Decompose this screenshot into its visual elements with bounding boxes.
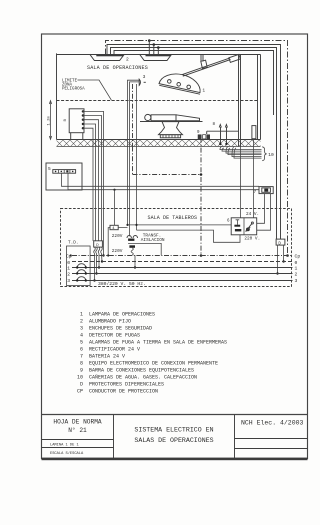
svg-text:380/220 V. 50 Hz.: 380/220 V. 50 Hz. bbox=[98, 281, 146, 287]
dash-dot branch bbox=[133, 174, 202, 176]
svg-text:D: D bbox=[80, 382, 83, 388]
thick bottom bar bbox=[42, 458, 308, 461]
svg-text:NCH Elec. 4/2003: NCH Elec. 4/2003 bbox=[241, 419, 304, 426]
svg-text:ALUMBRADO FIJO: ALUMBRADO FIJO bbox=[89, 319, 131, 325]
svg-text:5: 5 bbox=[80, 340, 83, 346]
supply drop for equipment bbox=[238, 55, 240, 147]
drops to buses bbox=[94, 254, 96, 281]
lamp dome bbox=[159, 74, 200, 93]
arm to counterweight (double line) bbox=[182, 58, 230, 75]
svg-text:DETECTOR DE FUGAS: DETECTOR DE FUGAS bbox=[89, 333, 140, 339]
svg-text:3: 3 bbox=[67, 278, 70, 284]
bracket and label 10 bbox=[262, 147, 266, 161]
detector de fugas 4 bbox=[110, 225, 118, 229]
svg-text:7: 7 bbox=[254, 190, 257, 195]
bus Cp dashed bbox=[72, 255, 293, 257]
svg-text:2: 2 bbox=[126, 56, 129, 62]
wall left bbox=[56, 53, 58, 139]
svg-text:1: 1 bbox=[80, 312, 83, 318]
dash-dot riser from bar 9 to Cp bus bbox=[200, 138, 202, 256]
ceiling luminaire B bbox=[140, 54, 172, 60]
svg-text:5: 5 bbox=[48, 166, 51, 172]
svg-text:1: 1 bbox=[67, 265, 70, 271]
ceiling luminaire A (alumbrado fijo) bbox=[90, 54, 125, 60]
svg-text:LAMINA 1 DE 1: LAMINA 1 DE 1 bbox=[50, 443, 80, 447]
socket terminal dots bbox=[82, 110, 84, 112]
floor line bbox=[57, 139, 261, 141]
svg-text:7: 7 bbox=[80, 354, 83, 360]
svg-text:EQUIPO ELECTROMEDICO DE CONEXI: EQUIPO ELECTROMEDICO DE CONEXION PERMANE… bbox=[89, 361, 218, 367]
svg-text:3: 3 bbox=[295, 278, 298, 284]
svg-text:SALA DE TABLEROS: SALA DE TABLEROS bbox=[148, 215, 198, 221]
svg-text:N° 21: N° 21 bbox=[68, 427, 87, 434]
ceiling bbox=[57, 54, 261, 56]
svg-text:24 V.: 24 V. bbox=[246, 212, 259, 217]
svg-text:3: 3 bbox=[143, 74, 146, 80]
svg-text:220V: 220V bbox=[112, 234, 123, 239]
bus 1 bbox=[72, 267, 293, 269]
sheet border frame bbox=[42, 34, 308, 459]
svg-text:CAÑERIAS DE AGUA. GASES. CALEF: CAÑERIAS DE AGUA. GASES. CALEFACCION bbox=[89, 374, 197, 381]
breakers on buses bbox=[77, 264, 86, 268]
elbow bracket bbox=[201, 60, 207, 68]
bus 2 bbox=[72, 273, 293, 275]
svg-text:AISLACION: AISLACION bbox=[141, 238, 165, 243]
bus 0 dash-dot bbox=[72, 261, 293, 263]
patient bbox=[145, 114, 151, 120]
svg-text:SALA DE OPERACIONES: SALA DE OPERACIONES bbox=[87, 65, 148, 71]
pedestal bbox=[159, 122, 183, 135]
svg-text:1: 1 bbox=[295, 265, 298, 271]
svg-text:RECTIFICADOR 24 V: RECTIFICADOR 24 V bbox=[89, 347, 140, 353]
table top bbox=[140, 121, 203, 123]
bus 3 bbox=[72, 280, 293, 282]
differential protector D left bbox=[94, 241, 103, 247]
svg-text:220V: 220V bbox=[112, 249, 123, 254]
pipes 10 under floor bbox=[220, 147, 262, 150]
svg-text:ENCHUFES DE SEGURIDAD: ENCHUFES DE SEGURIDAD bbox=[89, 326, 152, 332]
svg-text:SALAS DE OPERACIONES: SALAS DE OPERACIONES bbox=[134, 437, 213, 444]
wire staircase from transformer to rectifier bbox=[128, 224, 232, 226]
dashed limite zona peligrosa line bbox=[57, 100, 258, 102]
socket feed wires descending to floor duct bbox=[128, 80, 140, 146]
svg-text:BARRA DE CONEXIONES EQUIPOTENC: BARRA DE CONEXIONES EQUIPOTENCIALES bbox=[89, 368, 194, 374]
counterweight bbox=[229, 54, 241, 62]
alarm wiring to battery and detector bbox=[62, 173, 260, 186]
svg-text:ALARMAS DE FUGA A TIERRA EN SA: ALARMAS DE FUGA A TIERRA EN SALA DE ENFE… bbox=[89, 340, 227, 346]
svg-text:2: 2 bbox=[80, 319, 83, 325]
circuit B bbox=[111, 48, 277, 240]
isolation transformer bbox=[127, 236, 138, 238]
socket wiring bundle to tablero bbox=[83, 111, 104, 255]
svg-text:4: 4 bbox=[80, 333, 83, 339]
svg-text:ESCALA S/ESCALA: ESCALA S/ESCALA bbox=[50, 451, 84, 456]
svg-text:9: 9 bbox=[80, 368, 83, 374]
svg-text:HOJA DE NORMA: HOJA DE NORMA bbox=[53, 419, 102, 426]
svg-text:2: 2 bbox=[67, 272, 70, 278]
svg-text:CP: CP bbox=[77, 389, 83, 395]
wall right (double) bbox=[257, 55, 259, 140]
svg-text:220 V.: 220 V. bbox=[244, 236, 260, 241]
svg-text:0: 0 bbox=[67, 260, 70, 266]
base plate bbox=[160, 135, 180, 138]
svg-text:CONDUCTOR DE PROTECCION: CONDUCTOR DE PROTECCION bbox=[89, 389, 158, 395]
pipe riser bbox=[252, 126, 256, 139]
box legs bbox=[70, 133, 72, 140]
junction dots with drops to luminaire B bbox=[148, 39, 151, 42]
svg-text:BATERIA 24 V: BATERIA 24 V bbox=[89, 354, 125, 360]
equipotential dash-dot ring bbox=[106, 41, 288, 256]
svg-text:10: 10 bbox=[77, 375, 83, 381]
dimension 1.2m bbox=[50, 101, 52, 140]
differential protector D right bbox=[276, 239, 285, 245]
wall socket box B (enchufes de seguridad) bbox=[69, 109, 84, 133]
svg-text:PELIGROSA: PELIGROSA bbox=[62, 88, 85, 92]
svg-text:6: 6 bbox=[80, 347, 83, 353]
stem bbox=[200, 55, 202, 62]
svg-text:LAMPARA DE OPERACIONES: LAMPARA DE OPERACIONES bbox=[89, 312, 155, 318]
svg-text:T.D.: T.D. bbox=[68, 241, 79, 246]
wires from room bundle bbox=[127, 147, 129, 225]
svg-text:3: 3 bbox=[80, 326, 83, 332]
leader line limite bbox=[78, 80, 112, 100]
circuit C bbox=[114, 51, 274, 116]
svg-text:8: 8 bbox=[80, 361, 83, 367]
svg-text:2: 2 bbox=[295, 272, 298, 278]
bulbs bbox=[168, 80, 172, 84]
wires above ceiling: circuit A bbox=[107, 45, 281, 240]
svg-text:SISTEMA ELECTRICO EN: SISTEMA ELECTRICO EN bbox=[134, 426, 213, 433]
svg-text:Cp: Cp bbox=[295, 254, 301, 260]
svg-text:10: 10 bbox=[268, 152, 274, 158]
battery-rectifier link bbox=[257, 194, 265, 224]
svg-text:0: 0 bbox=[295, 260, 298, 266]
svg-text:PROTECTORES DIFERENCIALES: PROTECTORES DIFERENCIALES bbox=[89, 382, 164, 388]
svg-text:1.2m: 1.2m bbox=[48, 115, 52, 125]
